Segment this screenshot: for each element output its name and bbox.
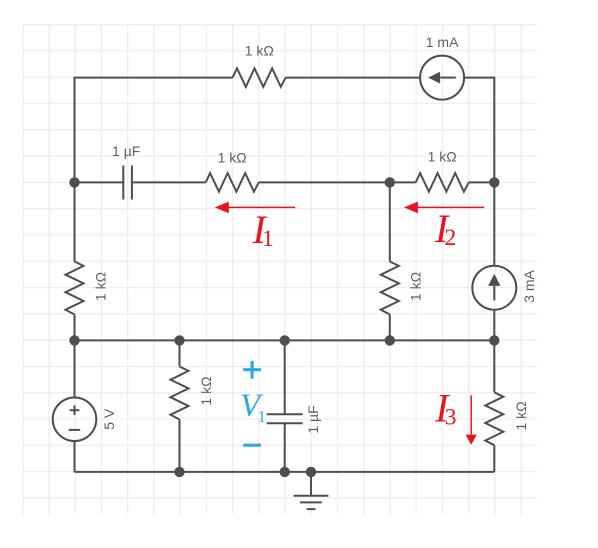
svg-text:1 kΩ: 1 kΩ [93,272,109,301]
svg-text:1 kΩ: 1 kΩ [218,149,247,165]
svg-text:1 µF: 1 µF [112,143,140,159]
svg-text:5 V: 5 V [101,408,117,430]
svg-text:3 mA: 3 mA [521,270,537,303]
svg-text:1 µF: 1 µF [305,405,321,433]
svg-text:1 kΩ: 1 kΩ [245,43,274,59]
svg-text:1 kΩ: 1 kΩ [408,272,424,301]
svg-text:1 kΩ: 1 kΩ [513,401,529,430]
svg-text:1 kΩ: 1 kΩ [198,376,214,405]
svg-text:2: 2 [445,225,457,251]
svg-text:3: 3 [445,405,457,431]
svg-text:1: 1 [258,407,267,426]
svg-text:1: 1 [262,226,274,252]
svg-text:1 kΩ: 1 kΩ [428,148,457,164]
svg-text:1 mA: 1 mA [426,34,459,50]
